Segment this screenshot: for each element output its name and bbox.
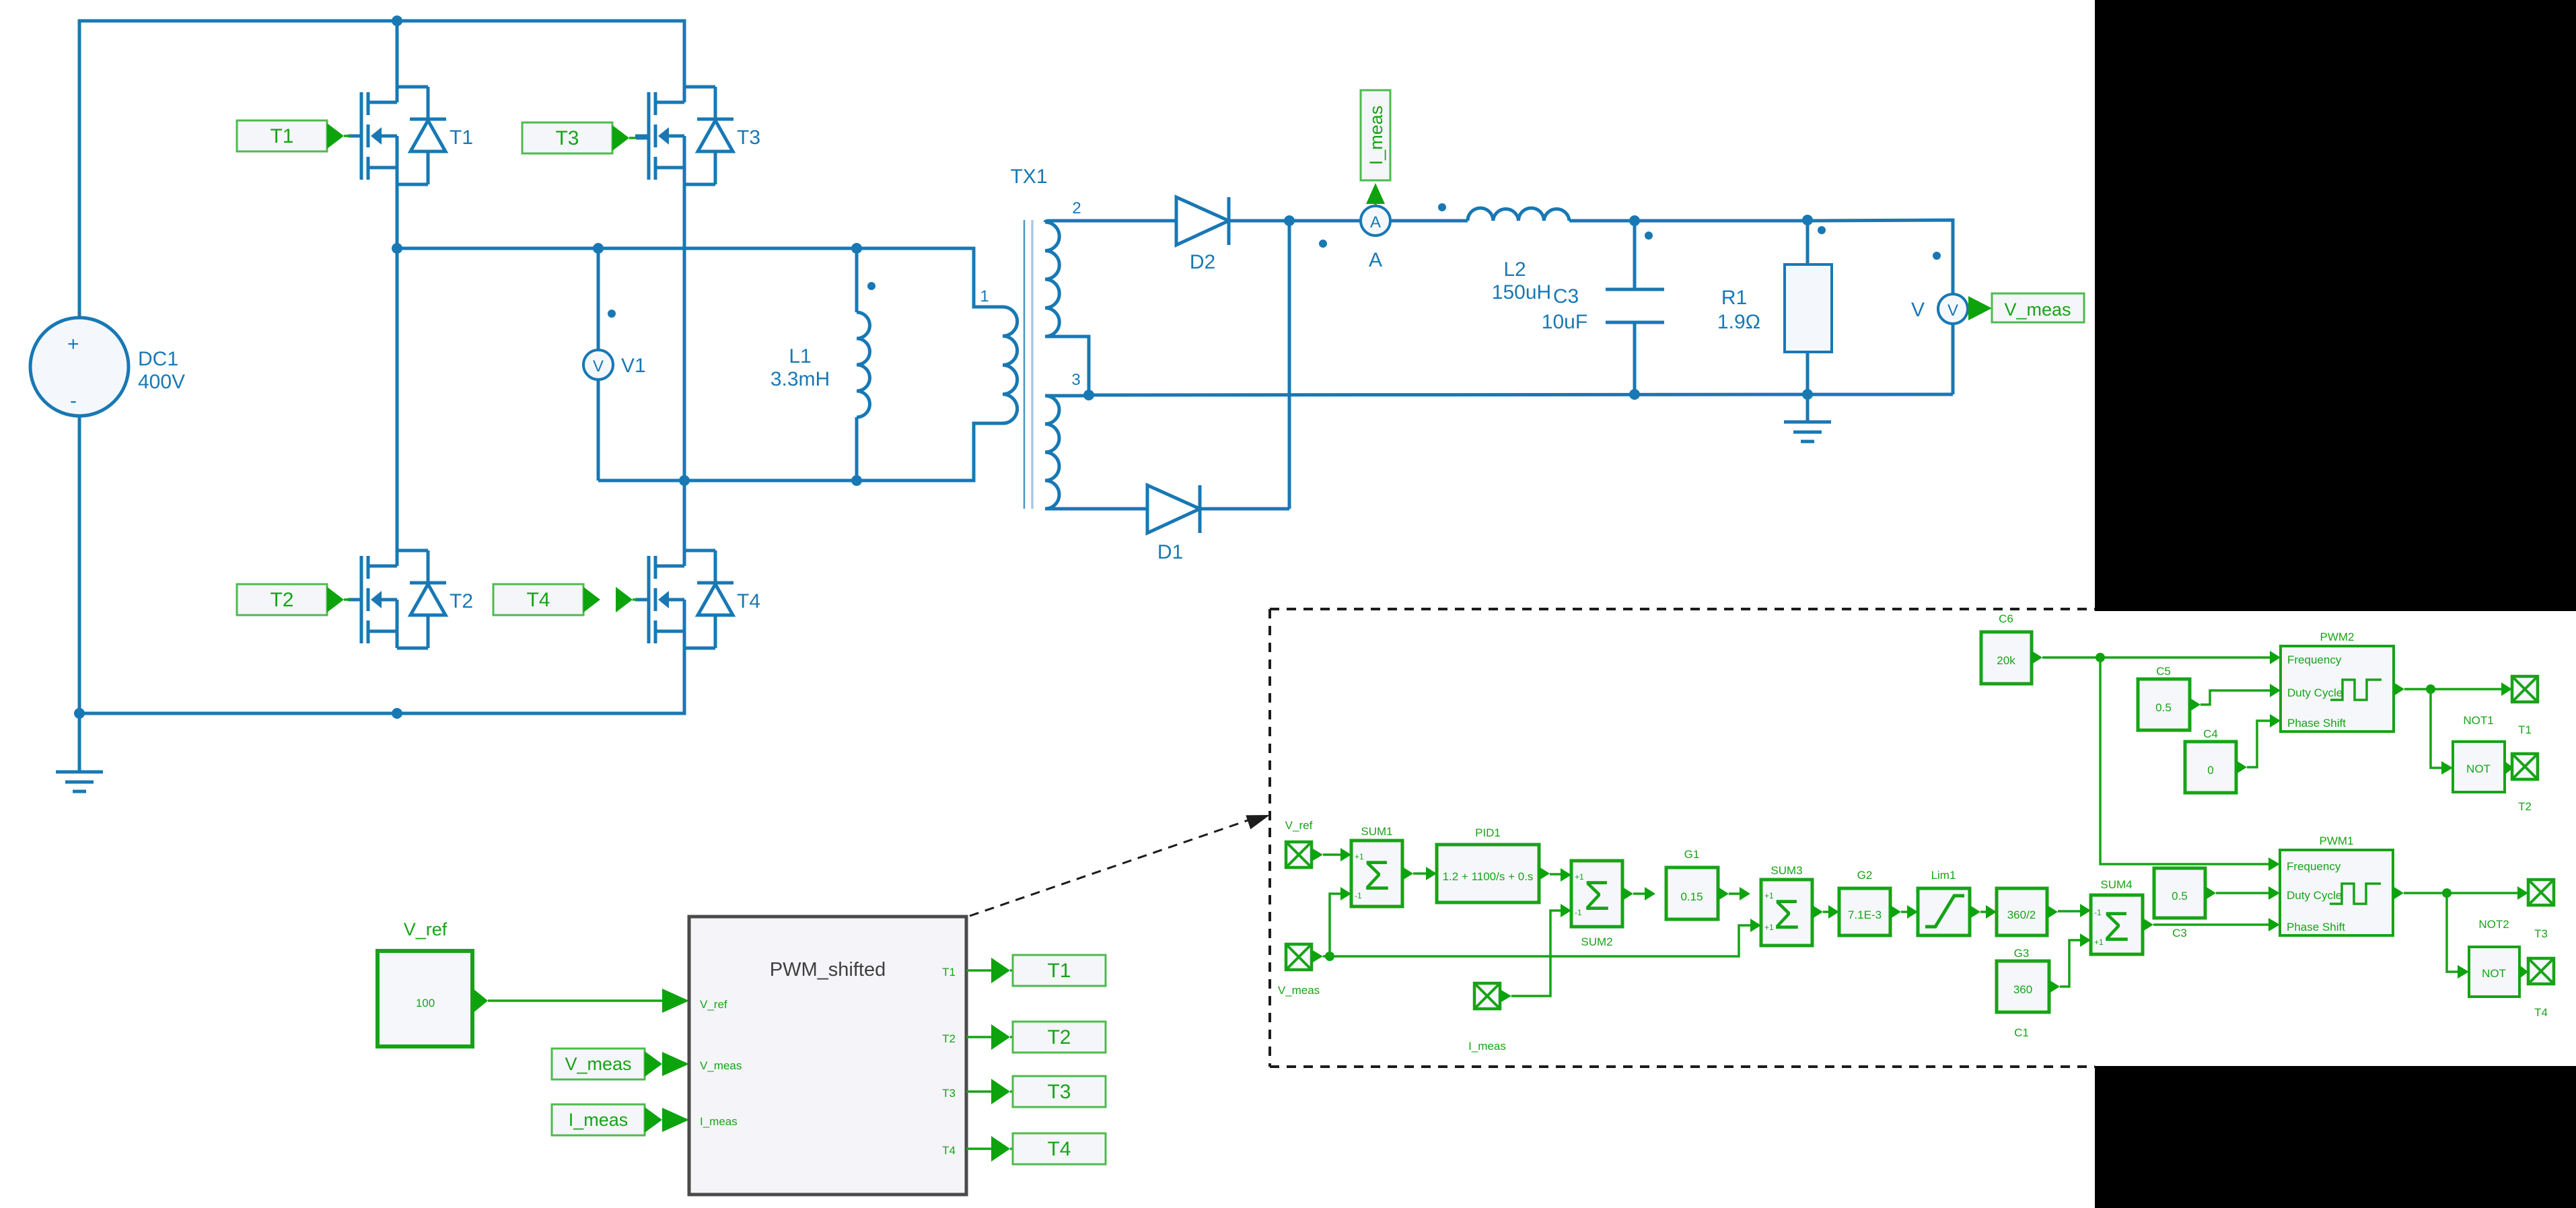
svg-text:20k: 20k <box>1997 654 2015 667</box>
svg-text:G1: G1 <box>1684 848 1700 861</box>
svg-text:Σ: Σ <box>2104 904 2129 950</box>
wire: ammeter right to L2 <box>1390 219 1468 223</box>
node: R1 top junction <box>1802 215 1813 225</box>
wire: V_meas port to junction <box>1323 955 1330 958</box>
transformer TX1 primary winding (pin 1) <box>1003 307 1017 423</box>
svg-text:2: 2 <box>1072 199 1081 217</box>
svg-text:360: 360 <box>2013 983 2032 996</box>
polarity dot V1 <box>608 310 616 318</box>
wire: PWM_shifted T3 output <box>966 1090 994 1093</box>
svg-text:DC1: DC1 <box>138 348 178 370</box>
wire: T3 gate stub <box>629 137 636 139</box>
svg-text:T2: T2 <box>2518 800 2532 813</box>
goto tag T3 (output) <box>1013 1076 1106 1107</box>
goto tag T4 (gate signal) <box>493 584 633 615</box>
svg-text:I_meas: I_meas <box>700 1115 738 1128</box>
svg-text:T3: T3 <box>555 127 579 149</box>
svg-text:0: 0 <box>2207 764 2213 777</box>
svg-text:SUM1: SUM1 <box>1361 825 1392 838</box>
wire: PWM_shifted T1 output <box>966 969 994 972</box>
wire: C6 to PWM2 frequency <box>2042 656 2270 659</box>
svg-text:Frequency: Frequency <box>2287 860 2341 873</box>
wire: top DC+ rail <box>79 21 684 318</box>
svg-text:PWM1: PWM1 <box>2320 834 2354 847</box>
svg-text:+1: +1 <box>1764 923 1774 932</box>
svg-text:L1: L1 <box>789 345 811 367</box>
svg-text:T4: T4 <box>1047 1138 1071 1160</box>
wire: lower mid rail (V1/L1 bottom to primary bottom) <box>598 423 1003 481</box>
svg-text:Phase Shift: Phase Shift <box>2287 921 2345 933</box>
wire: V_meas feed-forward to SUM3 <box>1330 925 1751 956</box>
svg-text:V: V <box>593 357 604 376</box>
svg-text:PWM_shifted: PWM_shifted <box>770 959 886 981</box>
svg-text:10uF: 10uF <box>1542 311 1587 333</box>
svg-text:Lim1: Lim1 <box>1931 869 1956 882</box>
svg-text:+1: +1 <box>2094 937 2104 947</box>
ammeter A <box>1361 206 1390 236</box>
wire: bottom rail <box>79 648 684 713</box>
svg-text:C1: C1 <box>2014 1026 2029 1039</box>
wire: ammeter to I_meas tag stub <box>1374 204 1377 206</box>
wire: V_ref port to SUM1 <box>1323 853 1342 856</box>
svg-text:T2: T2 <box>450 590 473 612</box>
wire: C1 to SUM4 plus input <box>2060 940 2080 987</box>
svg-text:V_meas: V_meas <box>565 1054 631 1074</box>
svg-text:SUM4: SUM4 <box>2100 878 2132 891</box>
goto tag T4 (output) <box>1013 1133 1106 1164</box>
polarity dot L1 <box>867 282 875 290</box>
polarity dot R1 <box>1818 226 1826 234</box>
svg-text:V_ref: V_ref <box>404 919 448 939</box>
voltmeter V (output) <box>1938 294 1968 324</box>
input port V_meas <box>1286 944 1312 970</box>
wire: SUM1 to PID1 <box>1413 872 1427 875</box>
svg-text:D1: D1 <box>1157 541 1183 563</box>
wire: C4 to PWM2 phase shift <box>2247 721 2270 767</box>
svg-text:+1: +1 <box>1575 872 1584 882</box>
screen black area bottom right <box>2095 1066 2576 1208</box>
goto tag V_meas (output voltage) <box>1968 293 2084 322</box>
svg-text:T4: T4 <box>737 590 760 612</box>
node: DC1 / ground junction <box>74 708 85 719</box>
svg-text:-: - <box>70 390 77 412</box>
wire: V_meas to PWM_shifted <box>663 1063 665 1065</box>
svg-text:I_meas: I_meas <box>1366 106 1386 166</box>
wire: I_meas to PWM_shifted <box>663 1118 665 1121</box>
node: PWM2 output branch <box>2426 684 2435 694</box>
node: top rail / T1 drain junction <box>392 15 402 26</box>
voltmeter V1 <box>597 248 600 481</box>
svg-text:T3: T3 <box>1047 1081 1071 1103</box>
svg-text:T3: T3 <box>2534 927 2548 940</box>
svg-text:NOT1: NOT1 <box>2463 714 2493 727</box>
wire: SUM4 to PWM1 phase shift <box>2153 923 2268 926</box>
svg-text:360/2: 360/2 <box>2007 909 2036 921</box>
wire: PWM1 output to T3 <box>2404 892 2518 894</box>
svg-text:400V: 400V <box>138 371 185 393</box>
svg-text:D2: D2 <box>1190 251 1215 273</box>
wire: I_meas to SUM2 minus input <box>1511 911 1561 996</box>
svg-text:V_meas: V_meas <box>2004 299 2071 320</box>
capacitor C3 10uF <box>1633 221 1637 394</box>
wire: PID1 to SUM2 <box>1550 873 1561 876</box>
constant block C1 (360) <box>1997 961 2049 1012</box>
wire: left leg mid (T1 source to T2 drain) <box>396 184 399 550</box>
wire: ground stub right <box>1806 394 1810 422</box>
svg-text:0.5: 0.5 <box>2172 890 2188 902</box>
voltage source DC1 <box>30 318 129 416</box>
node: T2 source junction <box>392 708 402 719</box>
svg-text:150uH: 150uH <box>1492 281 1551 304</box>
svg-text:Σ: Σ <box>1364 853 1390 899</box>
svg-text:T4: T4 <box>526 589 550 611</box>
svg-text:V: V <box>1947 301 1958 320</box>
wire: DC1 negative to bottom rail <box>78 416 81 713</box>
wire: V_ref to PWM_shifted <box>488 999 665 1002</box>
constant block C3 (0.5 duty) <box>2154 868 2205 918</box>
from tag V_meas (input) <box>552 1049 662 1079</box>
svg-text:7.1E-3: 7.1E-3 <box>1848 909 1882 921</box>
svg-text:Duty Cycle: Duty Cycle <box>2287 889 2342 902</box>
transformer TX1 secondary top winding (pin 2) <box>1045 222 1059 336</box>
wire: C5 to PWM2 duty cycle <box>2201 690 2270 705</box>
diode D2 <box>1176 197 1229 245</box>
ground (right, output) <box>1784 422 1831 441</box>
svg-text:NOT: NOT <box>2482 967 2506 980</box>
svg-text:T1: T1 <box>2518 723 2532 736</box>
subsystem block PWM_shifted <box>689 917 966 1195</box>
svg-text:Duty Cycle: Duty Cycle <box>2287 686 2342 699</box>
polarity dot L2 <box>1438 203 1446 211</box>
svg-text:PWM2: PWM2 <box>2320 631 2355 643</box>
wire: T1 drain stub <box>396 21 399 87</box>
svg-text:100: 100 <box>416 997 435 1009</box>
sum block SUM2 <box>1571 861 1622 927</box>
svg-text:+: + <box>67 333 79 355</box>
wire: D1 cathode riser <box>1288 221 1291 509</box>
input port I_meas <box>1474 983 1500 1009</box>
svg-text:+1: +1 <box>1764 891 1774 900</box>
svg-text:T1: T1 <box>942 966 956 979</box>
wire: C3 to PWM1 duty cycle <box>2216 892 2268 894</box>
polarity dot V meter <box>1933 252 1941 260</box>
node: rectifier output junction <box>1284 215 1295 226</box>
svg-text:V_ref: V_ref <box>700 998 727 1011</box>
svg-text:T4: T4 <box>942 1144 956 1157</box>
svg-text:+1: +1 <box>1355 852 1364 861</box>
wire: G3 to SUM4 <box>2058 910 2080 913</box>
wire: V meter bottom <box>1952 324 1955 394</box>
svg-text:C3: C3 <box>2172 927 2187 939</box>
node: L1 top junction <box>851 243 862 254</box>
svg-text:PID1: PID1 <box>1475 826 1501 839</box>
transformer TX1 secondary bottom winding (pin 3) <box>1045 396 1059 509</box>
node: frequency branch junction <box>2096 653 2105 662</box>
diode D1 <box>1147 485 1200 533</box>
inductor L2 150uH <box>1468 208 1569 221</box>
svg-text:T4: T4 <box>2534 1006 2548 1019</box>
svg-text:SUM2: SUM2 <box>1581 935 1612 948</box>
wire: G2 to Lim1 <box>1901 911 1907 913</box>
wire: top secondary to center tap <box>1045 336 1089 395</box>
transistor T2 (MOSFET with body diode) <box>348 550 446 648</box>
svg-text:-1: -1 <box>1355 891 1362 900</box>
svg-text:-1: -1 <box>2094 908 2102 917</box>
wire: center tap return rail <box>1089 394 1953 395</box>
node: left leg midpoint <box>392 243 402 254</box>
svg-text:C5: C5 <box>2156 665 2171 678</box>
svg-text:C3: C3 <box>1553 285 1579 308</box>
wire: ground stub left <box>78 713 81 772</box>
wire: PWM1 to NOT2 <box>2447 893 2458 972</box>
svg-text:3: 3 <box>1071 371 1080 389</box>
svg-text:SUM3: SUM3 <box>1770 864 1802 877</box>
wire: T1 gate stub <box>344 135 351 137</box>
node: V1 top junction <box>593 243 604 254</box>
node: PWM1 output branch <box>2442 888 2452 898</box>
svg-text:TX1: TX1 <box>1010 166 1047 188</box>
svg-text:C4: C4 <box>2203 727 2218 740</box>
node: C3 bottom junction <box>1629 389 1640 400</box>
svg-text:0.15: 0.15 <box>1680 890 1703 903</box>
svg-text:I_meas: I_meas <box>569 1110 629 1130</box>
wire: PWM_shifted T2 output <box>966 1036 994 1038</box>
svg-text:V_meas: V_meas <box>1278 984 1320 997</box>
node: V_meas branch junction <box>1325 952 1334 961</box>
svg-text:R1: R1 <box>1721 287 1747 309</box>
svg-text:L2: L2 <box>1503 258 1526 281</box>
output port T2 <box>2512 754 2538 779</box>
svg-text:V: V <box>1911 299 1925 321</box>
transistor T1 (MOSFET with body diode) <box>348 87 446 184</box>
resistor R1 1.9ohm <box>1806 220 1810 394</box>
svg-text:1.9Ω: 1.9Ω <box>1717 311 1760 333</box>
goto tag T1 (gate signal) <box>237 120 344 151</box>
from tag I_meas (input) <box>552 1104 662 1135</box>
svg-text:I_meas: I_meas <box>1468 1040 1506 1053</box>
svg-text:1.2 + 1100/s + 0.s: 1.2 + 1100/s + 0.s <box>1443 870 1534 883</box>
svg-text:-1: -1 <box>1575 908 1582 917</box>
svg-text:V1: V1 <box>621 355 646 377</box>
output port T1 <box>2512 676 2538 702</box>
wire: D2 cathode to output junction <box>1229 219 1361 223</box>
svg-text:T1: T1 <box>450 127 473 149</box>
wire: bottom secondary to D1 <box>1045 507 1147 511</box>
svg-text:A: A <box>1370 213 1381 232</box>
wire: bridge mid rail (to L1 / primary top) <box>397 248 1003 307</box>
node: C3 top junction <box>1629 215 1640 226</box>
wire: SUM3 to G2 <box>1823 911 1828 913</box>
svg-text:0.5: 0.5 <box>2155 701 2172 714</box>
goto tag I_meas (vertical, above ammeter) <box>1361 90 1390 204</box>
goto tag T1 (output) <box>1013 955 1106 986</box>
svg-text:T1: T1 <box>1047 960 1071 982</box>
svg-text:G3: G3 <box>2014 947 2030 960</box>
svg-text:T3: T3 <box>942 1087 956 1100</box>
svg-text:NOT2: NOT2 <box>2478 918 2509 931</box>
svg-text:C6: C6 <box>1999 612 2013 625</box>
node: L1 bottom junction <box>851 475 862 486</box>
node: right leg midpoint <box>679 475 690 486</box>
ground (left, below DC1) <box>56 772 103 791</box>
wire: T2 gate stub <box>344 598 351 601</box>
inductor L1 3.3mH <box>855 248 859 312</box>
svg-text:T2: T2 <box>1047 1026 1071 1049</box>
wire: output top rail <box>1635 220 1953 294</box>
wire: right leg mid (T3 source to T4 drain) <box>683 184 686 550</box>
svg-text:Σ: Σ <box>1774 892 1799 938</box>
screen black area top right <box>2095 0 2576 611</box>
wire: Lim1 to G3 <box>1980 911 1986 913</box>
transistor T3 (MOSFET with body diode) <box>635 87 734 184</box>
dashed expansion rectangle <box>1270 609 2095 1067</box>
svg-text:3.3mH: 3.3mH <box>771 368 830 390</box>
wire: PWM2 to NOT1 <box>2431 689 2442 768</box>
phase dot C3 <box>1645 232 1653 240</box>
svg-text:Σ: Σ <box>1584 873 1610 919</box>
output port T4 <box>2528 958 2554 984</box>
svg-text:Frequency: Frequency <box>2287 653 2342 666</box>
svg-text:T2: T2 <box>270 589 293 611</box>
svg-text:T2: T2 <box>942 1032 956 1045</box>
svg-text:Phase Shift: Phase Shift <box>2287 717 2346 730</box>
goto tag T3 (gate signal) <box>522 122 629 153</box>
transistor T4 (MOSFET with body diode) <box>635 550 734 648</box>
svg-text:NOT: NOT <box>2466 762 2491 775</box>
gain block G3 (360/2) <box>1997 888 2047 935</box>
goto tag T2 (gate signal) <box>237 584 344 615</box>
phase dot near rectifier output <box>1319 240 1327 248</box>
svg-text:A: A <box>1369 249 1382 271</box>
wire: T4 gate stub <box>633 598 637 601</box>
dashed arrow from PWM_shifted to detail view <box>970 819 1252 916</box>
svg-text:T3: T3 <box>737 127 760 149</box>
wire: frequency to PWM1 <box>2100 658 2269 864</box>
output port T3 <box>2528 880 2554 905</box>
wire: V_meas to SUM1 minus input <box>1330 894 1342 956</box>
svg-text:G2: G2 <box>1857 869 1873 882</box>
svg-text:1: 1 <box>980 287 989 306</box>
svg-text:V_meas: V_meas <box>700 1059 742 1072</box>
node: R1 bottom junction <box>1802 389 1813 400</box>
wire: L2 to C3 junction <box>1569 219 1635 223</box>
goto tag T2 (output) <box>1013 1022 1106 1053</box>
transformer TX1 core <box>1024 220 1026 509</box>
svg-text:V_ref: V_ref <box>1285 819 1313 832</box>
wire: PWM2 output to T1 <box>2404 688 2502 690</box>
wire: PWM_shifted T4 output <box>966 1147 994 1150</box>
node: center tap junction <box>1083 390 1094 400</box>
svg-text:T1: T1 <box>270 125 293 147</box>
wire: SUM2 to G1 <box>1633 892 1645 895</box>
wire: D1 to riser <box>1200 507 1289 511</box>
wire: G1 to SUM3 <box>1729 892 1740 895</box>
